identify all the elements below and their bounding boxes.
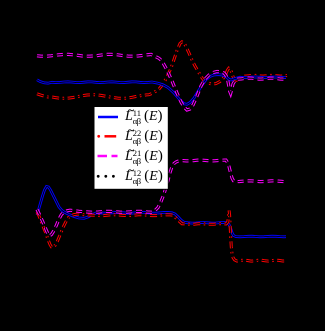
legend label row 2	[125, 129, 163, 145]
legend sample: red dash-dot	[97, 135, 100, 138]
bottom panel: curve L22 red dash-dot (doubled pair)	[37, 211, 287, 262]
tilde accent row 1	[128, 110, 134, 111]
tilde accent row 3	[128, 150, 134, 151]
tilde accent row 4	[128, 170, 134, 171]
legend sample: black dotted	[97, 175, 100, 178]
legend sample: blue solid	[98, 116, 118, 119]
tilde accent row 2	[128, 130, 134, 131]
legend sample: magenta dashed	[98, 155, 108, 158]
legend label row 4	[125, 169, 163, 185]
bottom panel: curve L21 magenta dashed (doubled pair)	[37, 160, 284, 236]
legend label row 3	[125, 149, 163, 165]
legend box	[94, 107, 168, 190]
top panel: curve L11 blue solid (doubled pair)	[37, 75, 286, 105]
bottom panel: curve L11 blue solid (doubled pair)	[37, 187, 286, 237]
legend label row 1	[125, 109, 163, 125]
top panel: curve L22 red dash-dot (doubled pair)	[37, 42, 287, 99]
top panel: curve L21 magenta dashed (doubled pair)	[37, 54, 284, 110]
